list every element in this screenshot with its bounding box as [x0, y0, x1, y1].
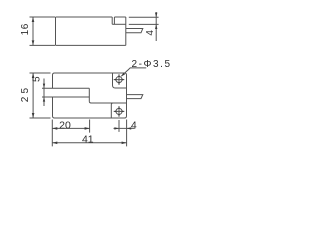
svg-text:20: 20	[59, 120, 71, 132]
svg-text:41: 41	[82, 134, 94, 146]
svg-text:16: 16	[20, 23, 31, 35]
svg-text:4: 4	[145, 30, 156, 36]
svg-text:4: 4	[131, 120, 137, 132]
svg-text:2-Φ3.5: 2-Φ3.5	[132, 59, 172, 70]
svg-text:25: 25	[20, 85, 31, 103]
svg-text:5: 5	[32, 76, 43, 82]
